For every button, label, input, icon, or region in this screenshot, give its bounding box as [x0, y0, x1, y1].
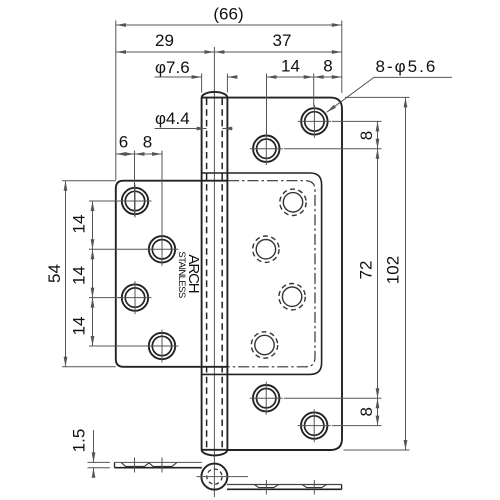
dimension 14 left b	[70, 249, 123, 297]
dimension 1.5	[70, 429, 111, 477]
hole A3 left leaf	[119, 281, 152, 314]
dimension 8 right bottom	[332, 398, 382, 425]
svg-text:37: 37	[273, 31, 292, 50]
dimension phi4.4	[155, 109, 233, 129]
hole A1 left leaf	[119, 185, 152, 218]
right leaf outline	[227, 98, 342, 450]
dimension 14 left c	[70, 298, 148, 346]
svg-text:29: 29	[155, 31, 174, 50]
countersink mark left hole 1	[121, 463, 149, 467]
phantom hole P1	[280, 189, 306, 215]
svg-text:8: 8	[143, 133, 152, 152]
dimension 8 left	[135, 133, 163, 155]
svg-text:8: 8	[357, 131, 376, 140]
phantom hole P3	[279, 284, 305, 310]
svg-text:6: 6	[119, 133, 128, 152]
svg-text:14: 14	[281, 57, 300, 76]
dimension 37	[214, 31, 341, 52]
hole B1 right leaf	[298, 105, 331, 138]
svg-text:14: 14	[70, 266, 89, 285]
centerline barrel axis	[213, 47, 215, 497]
svg-text:54: 54	[45, 264, 64, 283]
center tick right hole 2	[313, 480, 315, 495]
svg-text:(66): (66)	[213, 5, 243, 24]
svg-text:8-φ5.6: 8-φ5.6	[376, 57, 438, 76]
svg-text:8: 8	[323, 57, 332, 76]
dimension 72	[284, 149, 382, 399]
bottom view left leaf section	[115, 462, 202, 467]
bottom view right leaf section	[227, 485, 342, 490]
hole B2 right leaf	[250, 132, 283, 165]
dimension 8 right top	[284, 121, 382, 148]
dimension 102	[344, 97, 410, 450]
svg-text:φ7.6: φ7.6	[155, 58, 190, 77]
svg-text:STAINLESS: STAINLESS	[176, 251, 187, 297]
right leaf recess outline	[202, 173, 322, 374]
hinge pin hidden lines	[206, 99, 208, 450]
svg-text:14: 14	[70, 317, 89, 336]
dimension 29	[116, 31, 214, 52]
extension line left edge	[115, 21, 117, 181]
hole B3 right leaf	[250, 382, 283, 415]
center tick left hole 2	[161, 458, 163, 473]
dimension phi7.6	[155, 58, 237, 93]
svg-text:102: 102	[384, 256, 403, 284]
dimension 6 left	[116, 133, 162, 265]
dimension 54	[45, 181, 116, 367]
phantom hole P2	[253, 236, 279, 262]
bottom view knuckle	[197, 464, 249, 490]
dimension 8 top	[314, 57, 342, 78]
center tick right hole 1	[265, 480, 267, 495]
center tick left hole 1	[134, 458, 136, 473]
svg-text:φ4.4: φ4.4	[155, 109, 190, 128]
svg-text:14: 14	[70, 215, 89, 234]
dimension (66)	[116, 5, 342, 26]
hole A2 left leaf	[146, 233, 179, 266]
countersink mark left hole 2	[149, 463, 177, 467]
countersink mark right hole 1	[254, 485, 278, 488]
leader 8-phi5.6	[327, 57, 452, 112]
phantom hole P4	[251, 332, 277, 358]
dimension 14 left a	[70, 201, 148, 249]
svg-text:1.5: 1.5	[70, 429, 89, 453]
folded leaf phantom outline	[228, 181, 315, 367]
hole B4 right leaf	[298, 409, 331, 442]
countersink mark right hole 2	[302, 485, 326, 488]
dimension 14 top	[267, 57, 314, 135]
left leaf outline	[116, 181, 228, 367]
extension line right edge	[341, 21, 343, 94]
barrel knuckle outline	[202, 92, 228, 455]
svg-text:72: 72	[357, 261, 376, 280]
svg-text:8: 8	[357, 407, 376, 416]
hole A4 left leaf	[146, 330, 179, 363]
